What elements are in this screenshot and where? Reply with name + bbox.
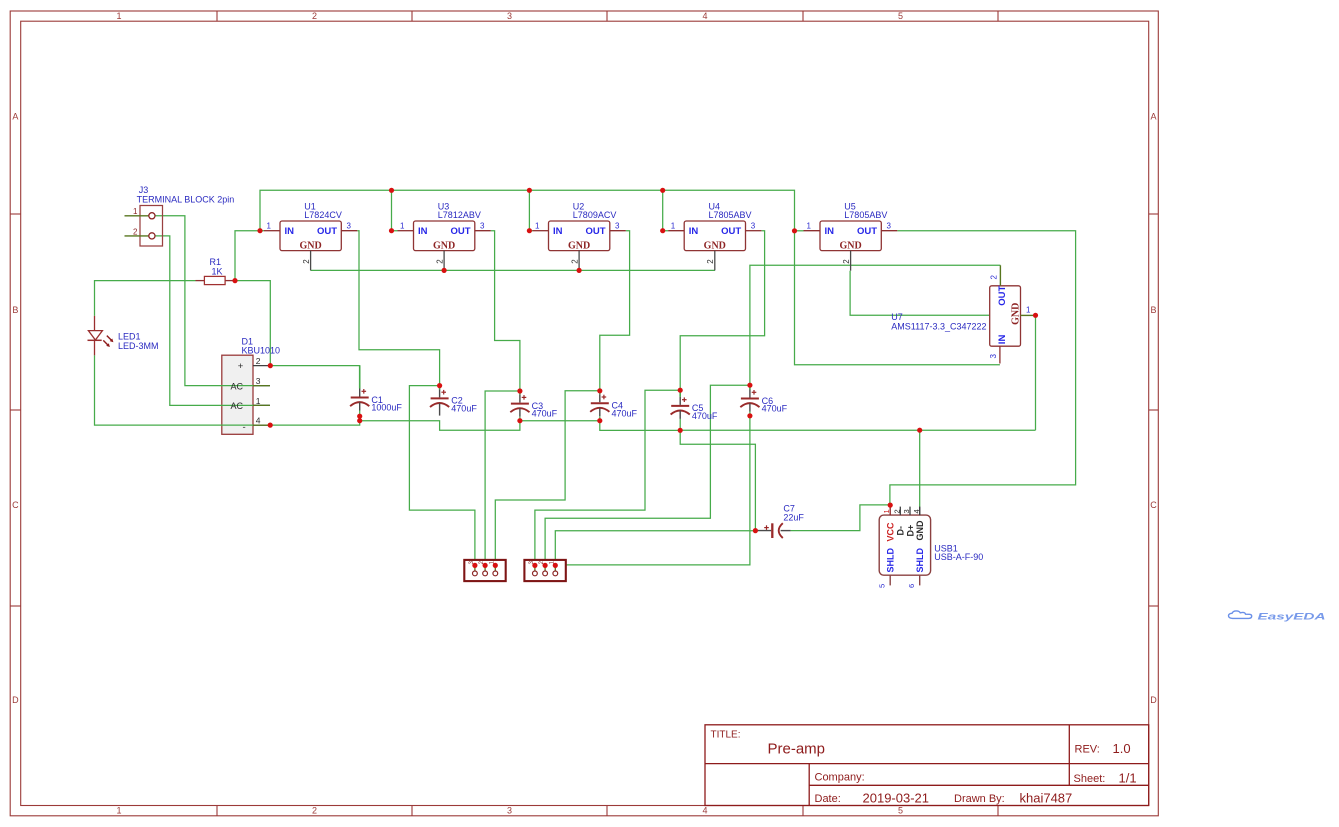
- wire C2 top to header1 pin1: [409, 386, 475, 566]
- svg-text:TERMINAL BLOCK 2pin: TERMINAL BLOCK 2pin: [137, 194, 235, 204]
- wire J3 pin2 to D1 AC pin1: [149, 236, 270, 406]
- svg-text:4: 4: [256, 416, 261, 426]
- svg-text:REV:: REV:: [1075, 744, 1100, 756]
- svg-text:3: 3: [615, 221, 620, 230]
- svg-text:B: B: [1150, 305, 1156, 315]
- svg-text:AC: AC: [231, 401, 244, 411]
- svg-text:1: 1: [116, 806, 121, 816]
- svg-text:4: 4: [912, 509, 921, 513]
- svg-text:L7809ACV: L7809ACV: [573, 210, 617, 220]
- svg-text:470uF: 470uF: [532, 409, 558, 419]
- svg-text:J3: J3: [139, 185, 149, 195]
- bridge rectifier D1 pins and labels: [231, 337, 281, 433]
- voltage regulator U1 L7824CV: [264, 201, 357, 270]
- svg-text:3: 3: [887, 221, 892, 230]
- svg-text:USB-A-F-90: USB-A-F-90: [934, 552, 983, 562]
- svg-text:LED-3MM: LED-3MM: [118, 341, 159, 351]
- wire C5 bottom to C7 left: [680, 430, 755, 530]
- svg-text:A: A: [1150, 112, 1156, 122]
- svg-text:khai7487: khai7487: [1020, 790, 1073, 805]
- svg-text:L7812ABV: L7812ABV: [438, 210, 481, 220]
- svg-text:SHLD: SHLD: [886, 548, 896, 573]
- svg-text:GND: GND: [1011, 303, 1022, 325]
- svg-text:1/1: 1/1: [1119, 771, 1137, 786]
- capacitor C4 470uF: [590, 391, 637, 421]
- wire header2 pin3 up to C7 left: [555, 531, 755, 566]
- svg-text:2019-03-21: 2019-03-21: [863, 790, 930, 805]
- svg-text:1: 1: [1026, 306, 1031, 315]
- svg-text:GND: GND: [433, 241, 455, 252]
- EasyEDA logo watermark: [1228, 611, 1325, 623]
- svg-text:2: 2: [893, 509, 902, 513]
- capacitor C6 470uF: [740, 385, 787, 416]
- svg-text:GND: GND: [915, 520, 925, 541]
- wire U5 pin2 to U7 pin1 GND: [850, 271, 990, 316]
- capacitor C7 22uF: [755, 503, 804, 538]
- bridge rectifier D1 KBU1010 body: [222, 355, 253, 434]
- svg-text:470uF: 470uF: [612, 408, 638, 418]
- svg-text:TITLE:: TITLE:: [711, 730, 741, 741]
- svg-text:AC: AC: [231, 381, 244, 391]
- svg-text:470uF: 470uF: [451, 404, 477, 414]
- header CN2 3pin: [524, 560, 565, 581]
- svg-text:D: D: [1150, 695, 1157, 705]
- svg-text:2: 2: [706, 259, 715, 264]
- svg-text:3: 3: [480, 221, 485, 230]
- svg-text:2: 2: [842, 259, 851, 264]
- svg-text:1000uF: 1000uF: [371, 403, 402, 413]
- svg-text:1: 1: [807, 221, 812, 230]
- svg-text:IN: IN: [997, 335, 1008, 345]
- wire R1 right junction to D1 plus pin2: [235, 281, 270, 366]
- wire ground bus to USB pin4: [919, 430, 921, 507]
- svg-text:3: 3: [507, 11, 512, 21]
- svg-text:D: D: [12, 695, 19, 705]
- svg-text:EasyEDA: EasyEDA: [1258, 611, 1326, 622]
- wire C4 top to header1 pin3: [495, 391, 600, 566]
- svg-text:L7805ABV: L7805ABV: [709, 210, 752, 220]
- svg-text:2: 2: [312, 11, 317, 21]
- svg-text:L7824CV: L7824CV: [304, 210, 342, 220]
- wire C6 top to header2 pin2: [545, 385, 750, 565]
- wire input bus to regulator pin1 taps: [260, 190, 795, 231]
- svg-text:1: 1: [535, 221, 540, 230]
- svg-text:3: 3: [751, 221, 756, 230]
- svg-text:5: 5: [898, 806, 903, 816]
- svg-text:1: 1: [882, 509, 891, 513]
- svg-text:GND: GND: [568, 241, 590, 252]
- svg-text:IN: IN: [825, 226, 835, 237]
- capacitor C1 1000uF: [350, 366, 402, 417]
- svg-text:1: 1: [133, 207, 138, 216]
- svg-text:3: 3: [989, 354, 998, 359]
- svg-text:R1: R1: [210, 257, 222, 267]
- svg-text:5: 5: [878, 584, 887, 588]
- svg-text:IN: IN: [553, 226, 563, 237]
- svg-text:3: 3: [902, 509, 911, 513]
- svg-text:IN: IN: [285, 226, 295, 237]
- voltage regulator U7 AMS1117-3.3_C347222: [891, 265, 1035, 363]
- header CN1 3pin: [464, 560, 505, 581]
- svg-text:2: 2: [436, 259, 445, 264]
- svg-text:4: 4: [702, 806, 707, 816]
- svg-text:A: A: [12, 112, 18, 122]
- wire U2 OUT to C4 top: [600, 231, 630, 391]
- svg-text:Date:: Date:: [815, 793, 841, 805]
- voltage regulator U4 L7805ABV: [668, 201, 761, 270]
- svg-text:OUT: OUT: [997, 286, 1008, 306]
- capacitor C5 470uF: [671, 390, 718, 430]
- svg-text:AMS1117-3.3_C347222: AMS1117-3.3_C347222: [891, 322, 986, 332]
- wire C5 top to header2 pin1: [535, 390, 680, 565]
- svg-text:OUT: OUT: [317, 226, 337, 237]
- svg-text:D+: D+: [905, 525, 915, 537]
- svg-text:IN: IN: [418, 226, 428, 237]
- svg-text:6: 6: [907, 584, 916, 588]
- svg-text:D-: D-: [896, 526, 906, 536]
- wire C6 bottom down to header2 pin3 row: [555, 416, 750, 565]
- svg-text:4: 4: [702, 11, 707, 21]
- svg-text:470uF: 470uF: [762, 404, 788, 414]
- svg-text:470uF: 470uF: [692, 411, 718, 421]
- svg-text:1: 1: [256, 396, 261, 406]
- LED LED1 LED-3MM: [88, 316, 159, 355]
- svg-text:2: 2: [312, 806, 317, 816]
- svg-text:Drawn By:: Drawn By:: [954, 793, 1005, 805]
- svg-text:U7: U7: [891, 312, 903, 322]
- wire U7 pin2 OUT rail to C6 top: [750, 265, 1001, 385]
- wire U4 OUT to C5 top: [680, 231, 764, 391]
- svg-text:Sheet:: Sheet:: [1074, 773, 1106, 785]
- svg-text:OUT: OUT: [857, 226, 877, 237]
- voltage regulator U3 L7812ABV: [398, 201, 491, 270]
- svg-text:1.0: 1.0: [1113, 741, 1131, 756]
- svg-text:GND: GND: [704, 241, 726, 252]
- svg-text:C: C: [12, 500, 19, 510]
- wire C3 top to header1 pin2: [485, 391, 520, 565]
- svg-text:5: 5: [898, 11, 903, 21]
- wire J3 pin1 to D1 AC pin3: [149, 216, 270, 386]
- svg-text:1K: 1K: [212, 267, 223, 277]
- svg-text:2: 2: [302, 259, 311, 264]
- svg-text:2: 2: [133, 227, 138, 236]
- wire regulator GND bus U1 U3 U2 U4 pin2: [311, 269, 715, 271]
- svg-text:1: 1: [116, 11, 121, 21]
- wire ground bus along capacitors: [360, 421, 1036, 431]
- svg-text:1: 1: [267, 221, 272, 230]
- connector J3 TERMINAL BLOCK 2pin: [125, 185, 235, 246]
- svg-text:KBU1010: KBU1010: [242, 345, 281, 355]
- svg-text:2: 2: [256, 356, 261, 366]
- svg-text:IN: IN: [689, 226, 699, 237]
- wire R1 left to LED1 anode: [95, 281, 196, 316]
- connector USB1 USB-A-F-90: [878, 505, 984, 588]
- svg-text:GND: GND: [839, 241, 861, 252]
- svg-text:L7805ABV: L7805ABV: [844, 210, 887, 220]
- svg-text:2: 2: [571, 259, 580, 264]
- wire U7 pin1 down to ground bus: [1035, 315, 1037, 430]
- svg-text:22uF: 22uF: [783, 513, 804, 523]
- wire U3 OUT to C3 top: [491, 231, 520, 391]
- svg-text:+: +: [238, 361, 244, 372]
- svg-text:B: B: [12, 305, 18, 315]
- svg-text:3: 3: [507, 806, 512, 816]
- svg-text:2: 2: [990, 275, 999, 280]
- svg-text:3: 3: [256, 376, 261, 386]
- capacitor C2 470uF: [430, 386, 477, 416]
- voltage regulator U5 L7805ABV: [804, 201, 898, 270]
- svg-text:1: 1: [400, 221, 405, 230]
- resistor R1 1K: [196, 257, 236, 285]
- svg-text:1: 1: [671, 221, 676, 230]
- svg-text:Pre-amp: Pre-amp: [768, 741, 826, 758]
- capacitor C3 470uF: [510, 391, 557, 421]
- svg-text:VCC: VCC: [886, 522, 896, 542]
- svg-text:Company:: Company:: [815, 771, 865, 783]
- svg-text:3: 3: [347, 221, 352, 230]
- wire LED1 cathode to D1 pin4 and C1 bottom: [95, 355, 360, 425]
- wire U5 pin1 node down to U7 pin3 IN: [795, 231, 1000, 365]
- wire U1 OUT to C2 top: [357, 231, 439, 386]
- wire C7 right to USB VCC: [791, 505, 891, 531]
- svg-text:-: -: [243, 422, 246, 433]
- wire D1 pin2 to C1 top: [270, 366, 359, 387]
- svg-text:C: C: [1150, 500, 1157, 510]
- wire R1 right junction up to U1 pin1: [235, 231, 260, 281]
- wire U5 OUT to USB VCC rail: [890, 231, 1076, 505]
- svg-text:SHLD: SHLD: [915, 548, 925, 573]
- svg-text:GND: GND: [299, 241, 321, 252]
- voltage regulator U2 L7809ACV: [533, 201, 626, 270]
- svg-text:OUT: OUT: [585, 226, 605, 237]
- svg-text:OUT: OUT: [721, 226, 741, 237]
- svg-text:OUT: OUT: [450, 226, 470, 237]
